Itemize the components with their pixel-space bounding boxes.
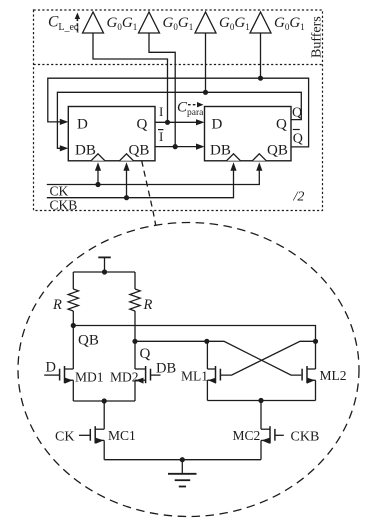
svg-text:G0G1: G0G1	[219, 15, 250, 32]
svg-text:QB: QB	[129, 143, 150, 159]
junction dot U3 tap on feedback line	[203, 90, 208, 95]
node Q rail	[135, 340, 207, 342]
svg-text:R: R	[143, 297, 153, 313]
node QB rail	[73, 326, 315, 342]
wire feedback: FF2 Q to FF1 DB (with arrow)	[57, 92, 301, 148]
cross-coupling wire: ML1 drain to ML2 gate	[207, 341, 301, 375]
VDD supply symbol	[98, 256, 111, 258]
junction dot VDD rail	[102, 269, 107, 274]
wire ground rail	[104, 459, 261, 461]
CKB arrow to FF1	[126, 168, 128, 198]
wire MD pair common source rail	[73, 400, 135, 402]
svg-text:Q: Q	[292, 106, 302, 121]
svg-text:MC2: MC2	[233, 428, 261, 443]
junction dot U4 tap on feedback line	[258, 76, 263, 81]
svg-text:QB: QB	[78, 333, 99, 349]
svg-text:I: I	[159, 129, 163, 144]
svg-text:DB: DB	[156, 361, 176, 377]
clock CK rail	[47, 168, 259, 185]
svg-text:CKB: CKB	[50, 198, 78, 213]
resistor R (left)	[72, 272, 74, 289]
CK arrow to FF1	[97, 168, 99, 185]
wire feedback: FF2 QB to FF1 D (with arrow)	[48, 78, 309, 147]
svg-text:Q: Q	[137, 117, 148, 133]
dashed ellipse (transistor-level view)	[18, 223, 359, 517]
svg-text:D: D	[212, 117, 223, 133]
transistor MD2	[145, 366, 147, 383]
wire buffer U4 input from node Q line	[260, 33, 262, 78]
wire buffer U2 input from node Ibar	[149, 33, 175, 147]
flip-flop FF1 box	[68, 107, 155, 161]
FF1 clock caret 2	[120, 154, 134, 161]
svg-text:Q: Q	[276, 117, 287, 133]
wire VDD rail	[73, 271, 135, 273]
junction dot node Ibar	[173, 144, 178, 149]
flip-flop FF2 box	[205, 107, 292, 161]
wire buffer U3 input from node Qbar line	[205, 33, 207, 92]
buffer U2 (triangle)	[139, 12, 160, 33]
resistor R (right)	[134, 272, 136, 289]
svg-text:/2: /2	[293, 190, 305, 205]
FF1 clock caret 1	[91, 154, 105, 161]
svg-text:DB: DB	[210, 143, 231, 159]
svg-text:Buffers: Buffers	[310, 16, 325, 58]
FF2 clock caret 2	[252, 154, 266, 161]
junction dot node I	[165, 120, 170, 125]
svg-text:CKB: CKB	[291, 430, 320, 445]
svg-text:CL_eq: CL_eq	[48, 14, 79, 34]
wire ML pair common source rail	[207, 400, 315, 402]
svg-text:Q: Q	[140, 346, 151, 362]
svg-text:ML2: ML2	[320, 368, 347, 383]
buffers box bottom dashed divider	[34, 64, 323, 66]
svg-text:CK: CK	[50, 184, 69, 199]
junction dot ML2 drain	[313, 339, 318, 344]
svg-text:MD2: MD2	[110, 370, 139, 385]
svg-text:ML1: ML1	[181, 369, 208, 384]
svg-text:Cpara: Cpara	[177, 100, 204, 119]
transistor MC1	[94, 426, 96, 443]
svg-text:QB: QB	[267, 143, 288, 159]
FF2 clock caret 1	[227, 154, 241, 161]
transistor MD1	[64, 366, 66, 383]
svg-text:CK: CK	[55, 430, 74, 445]
buffer U4 (triangle)	[250, 12, 271, 33]
transistor MC2	[269, 426, 271, 443]
buffer U1 (triangle)	[83, 12, 104, 33]
svg-text:D: D	[77, 117, 88, 133]
transistor ML2	[306, 366, 308, 383]
svg-text:MC1: MC1	[108, 428, 136, 443]
transistor ML1	[215, 366, 217, 383]
svg-text:MD1: MD1	[75, 370, 104, 385]
wire buffer U1 input from node I	[93, 33, 168, 122]
clock CKB rail	[47, 168, 234, 198]
svg-text:D: D	[46, 360, 56, 376]
wire node I: FF1 Q to FF2 D (with arrow)	[155, 121, 197, 123]
svg-text:I: I	[159, 104, 163, 119]
wire node Ibar: FF1 QB to FF2 DB (with arrow)	[155, 146, 197, 148]
svg-text:DB: DB	[75, 143, 96, 159]
svg-text:Q: Q	[293, 132, 303, 147]
svg-text:G0G1: G0G1	[274, 15, 305, 32]
ground symbol	[180, 457, 185, 462]
cross-coupling wire: ML2 drain to ML1 gate	[221, 341, 316, 375]
svg-text:G0G1: G0G1	[107, 15, 138, 32]
outer dashed box (divider block)	[34, 10, 323, 211]
svg-text:R: R	[52, 297, 62, 313]
svg-text:G0G1: G0G1	[163, 15, 194, 32]
dashed zoom callout line	[142, 161, 156, 226]
buffer U3 (triangle)	[195, 12, 216, 33]
